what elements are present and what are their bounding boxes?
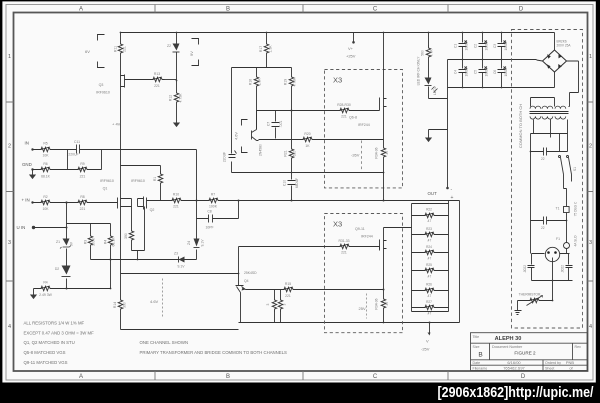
resistor R24 <box>412 245 449 260</box>
node 6V bracket <box>85 35 105 68</box>
svg-text:620: 620 <box>293 151 297 157</box>
ground earth <box>515 311 522 315</box>
resistor R18 pair <box>266 290 287 323</box>
wire lower left bottom rail <box>121 329 239 331</box>
svg-text:4: 4 <box>8 324 11 330</box>
rectifier BR1 <box>537 33 579 107</box>
svg-text:C: C <box>373 7 378 13</box>
svg-text:R11: R11 <box>114 46 118 52</box>
svg-text:Orderd by: Orderd by <box>545 361 561 365</box>
wire supply minus stub <box>447 130 449 188</box>
resistor R8 <box>76 195 90 211</box>
svg-text:3: 3 <box>8 240 11 246</box>
wire Q4 emitter rail <box>246 289 384 291</box>
svg-text:Rev: Rev <box>575 345 582 349</box>
svg-text:6V: 6V <box>85 49 90 54</box>
svg-text:Q9-11: Q9-11 <box>355 227 365 231</box>
svg-text:R25: R25 <box>426 263 432 267</box>
transistor Q9-11 <box>355 227 387 251</box>
svg-text:F1: F1 <box>556 237 560 241</box>
svg-text:200V 25A: 200V 25A <box>557 44 572 48</box>
svg-text:.47: .47 <box>427 274 432 278</box>
resistor R26 <box>412 283 449 298</box>
svg-text:2: 2 <box>8 144 11 150</box>
svg-text:6/16/00: 6/16/00 <box>507 360 521 365</box>
svg-text:U IN: U IN <box>17 225 26 230</box>
wire 68.1K leg down <box>110 260 112 289</box>
svg-text:ONE CHANNEL SHOWN: ONE CHANNEL SHOWN <box>140 340 189 345</box>
svg-text:Z3: Z3 <box>174 252 178 256</box>
wire V+ top rail <box>121 32 555 34</box>
node junctions top rail <box>120 32 430 34</box>
resistor R25 <box>412 263 449 278</box>
svg-text:R26: R26 <box>426 283 432 287</box>
svg-text:C11: C11 <box>74 140 80 144</box>
wire Q6 gate line <box>292 108 380 111</box>
svg-text:PNB: PNB <box>566 360 575 365</box>
svg-text:T1: T1 <box>556 207 560 211</box>
wire Z1 Z2 stack <box>66 228 68 289</box>
capacitor CX1 <box>531 148 568 162</box>
svg-text:560: 560 <box>421 50 425 56</box>
svg-text:220UF: 220UF <box>223 152 227 162</box>
svg-text:X3: X3 <box>333 76 342 85</box>
svg-text:R14: R14 <box>113 302 117 308</box>
svg-text:B: B <box>226 7 230 13</box>
svg-text:R7: R7 <box>211 192 215 196</box>
svg-text:C3: C3 <box>493 44 497 48</box>
svg-text:C4: C4 <box>454 70 458 74</box>
svg-text:9.1V: 9.1V <box>178 265 186 269</box>
wire Q6 drain feed <box>383 33 385 97</box>
node cap bank junctions <box>462 32 503 89</box>
svg-text:Z4: Z4 <box>187 241 191 245</box>
svg-text:IRF9610: IRF9610 <box>96 91 110 95</box>
svg-text:390: 390 <box>123 302 127 308</box>
svg-text:R23: R23 <box>426 227 432 231</box>
zener Z4 <box>187 201 205 260</box>
svg-text:C5: C5 <box>474 70 478 74</box>
capacitor C8 <box>197 201 239 230</box>
capacitor C1 <box>454 33 469 60</box>
ground <box>30 295 37 300</box>
zener Z3 <box>174 252 185 269</box>
resistor R5 <box>39 142 53 158</box>
svg-text:S1: S1 <box>573 167 577 171</box>
resistor R15 <box>282 282 296 298</box>
zone ticks bottom <box>155 371 448 380</box>
diagram X3 upper dashed box <box>325 70 403 188</box>
svg-text:R17: R17 <box>259 46 263 52</box>
wire OUT rail <box>147 200 460 202</box>
svg-text:X3: X3 <box>333 220 342 229</box>
svg-text:R22: R22 <box>426 208 432 212</box>
transformer T1 <box>530 98 570 134</box>
node junction <box>66 227 112 290</box>
svg-text:-25V: -25V <box>421 347 430 352</box>
svg-text:ALEPH 30: ALEPH 30 <box>495 336 522 342</box>
svg-text:1: 1 <box>589 54 592 60</box>
resistor R560 LED dropper <box>421 33 434 78</box>
ground <box>29 171 36 180</box>
svg-text:100K: 100K <box>209 205 218 209</box>
svg-text:4: 4 <box>589 324 592 330</box>
zone letters top <box>79 7 524 13</box>
wire primary to switch <box>531 134 568 254</box>
svg-text:B: B <box>226 374 230 380</box>
svg-text:.47: .47 <box>427 219 432 223</box>
wire output bank rails <box>412 201 449 312</box>
svg-text:B: B <box>478 352 482 359</box>
svg-text:C1: C1 <box>454 44 458 48</box>
svg-text:R12: R12 <box>169 95 173 101</box>
wire lower bias rail <box>121 273 239 275</box>
image black edges <box>0 0 600 1</box>
svg-text:IN: IN <box>25 141 29 146</box>
svg-text:R34-36: R34-36 <box>375 147 379 158</box>
svg-text:R9: R9 <box>80 162 84 166</box>
resistor R12 <box>169 91 183 123</box>
svg-text:.47: .47 <box>385 302 389 307</box>
capacitor CX2 <box>531 217 567 231</box>
diode LED1 <box>425 78 438 99</box>
svg-text:R15: R15 <box>285 282 291 286</box>
svg-text:IRF244: IRF244 <box>361 235 373 239</box>
svg-text:Size: Size <box>473 345 480 349</box>
svg-text:10000: 10000 <box>485 67 489 76</box>
svg-text:10000: 10000 <box>504 67 508 76</box>
transistor Q1 <box>100 179 131 210</box>
resistor R10 <box>170 192 184 208</box>
transistor Q4 <box>236 247 258 293</box>
svg-text:ALL RESISTORS 1/4 W 1% MF: ALL RESISTORS 1/4 W 1% MF <box>24 321 85 326</box>
svg-text:Z2: Z2 <box>167 44 171 48</box>
svg-text:221: 221 <box>341 115 347 119</box>
wire U IN to divider <box>34 203 67 228</box>
node IN label <box>25 141 34 151</box>
svg-text:[2906x1862]http://upic.me/: [2906x1862]http://upic.me/ <box>438 384 595 401</box>
wire V- rail <box>239 322 460 324</box>
resistor R4 <box>104 224 116 260</box>
wire input feed vertical <box>196 150 197 201</box>
title block <box>471 333 588 371</box>
diagram COMMON dashed box <box>512 30 583 329</box>
svg-text:.47: .47 <box>385 151 389 156</box>
svg-text:IRF9610: IRF9610 <box>131 179 145 183</box>
ground <box>425 138 432 143</box>
svg-text:68.1K: 68.1K <box>112 237 116 247</box>
svg-text:COMMON TO BOTH CH: COMMON TO BOTH CH <box>518 104 523 148</box>
svg-text:LED IRF CH ONLY: LED IRF CH ONLY <box>417 56 421 86</box>
svg-text:4.6V: 4.6V <box>235 132 239 140</box>
node terminal labels <box>451 187 454 201</box>
zone letters bottom <box>79 374 526 380</box>
svg-text:D: D <box>521 374 526 380</box>
node GND label <box>22 162 34 171</box>
svg-text:V: V <box>426 339 429 344</box>
transistor Q6-8 <box>349 97 387 128</box>
resistor R34-36 <box>375 110 390 201</box>
resistor R7 <box>207 192 221 208</box>
svg-text:10000: 10000 <box>465 67 469 76</box>
svg-text:765462.S97: 765462.S97 <box>503 366 525 371</box>
svg-text:9.1V: 9.1V <box>201 239 205 247</box>
svg-text:R3: R3 <box>84 240 88 244</box>
svg-text:10PF: 10PF <box>205 226 213 230</box>
node junction <box>291 110 293 112</box>
svg-text:1: 1 <box>8 54 11 60</box>
wire IN line <box>33 149 196 151</box>
svg-text:221: 221 <box>123 46 127 52</box>
node junctions misc <box>110 80 568 324</box>
svg-text:68.1K: 68.1K <box>41 175 51 179</box>
resistor R3 <box>84 224 96 260</box>
wire Q5 emitter rail <box>259 139 384 141</box>
svg-text:LED1: LED1 <box>433 86 437 95</box>
svg-text:-26V: -26V <box>351 153 360 158</box>
svg-text:9V: 9V <box>70 241 74 246</box>
svg-text:.47: .47 <box>427 294 432 298</box>
resistor R21 <box>284 147 297 161</box>
capacitor C5 <box>474 60 489 88</box>
svg-text:3: 3 <box>589 240 592 246</box>
capacitor C2 <box>474 33 489 60</box>
svg-text:1.0K: 1.0K <box>258 78 262 86</box>
svg-text:A: A <box>79 374 83 380</box>
svg-text:.47: .47 <box>427 311 432 315</box>
svg-text:+: + <box>451 195 454 201</box>
wire bias box mid rail <box>257 110 292 112</box>
wire main left rail <box>120 33 122 330</box>
resistor R6 <box>39 162 53 179</box>
receptacle J1 <box>532 247 570 300</box>
svg-text:.47: .47 <box>427 238 432 242</box>
resistor R37-39 <box>375 251 390 323</box>
node junction prong <box>552 280 554 282</box>
resistor R16 <box>249 68 262 130</box>
svg-text:R24: R24 <box>426 245 432 249</box>
svg-text:4A SLO: 4A SLO <box>574 235 578 247</box>
transistor Q2 <box>131 179 154 212</box>
transistor Q3 <box>96 75 150 95</box>
svg-text:3: 3 <box>266 303 270 305</box>
svg-text:V+: V+ <box>348 46 354 51</box>
svg-text:.0022: .0022 <box>523 265 527 273</box>
svg-text:Title: Title <box>473 335 480 339</box>
svg-text:390: 390 <box>124 233 128 239</box>
svg-text:Z1: Z1 <box>56 240 60 244</box>
wire input box verticals <box>68 150 102 170</box>
wire bias box <box>232 68 384 173</box>
transistor Q5 <box>252 111 263 156</box>
capacitor C9 <box>223 151 237 163</box>
resistor R20 <box>301 132 315 148</box>
svg-text:4.75K: 4.75K <box>293 77 297 87</box>
capacitor C7 <box>267 111 284 139</box>
capacitor CY2 <box>561 254 573 281</box>
svg-text:+ 4V: + 4V <box>112 122 121 127</box>
svg-text:GND: GND <box>22 162 32 167</box>
svg-text:IRF244: IRF244 <box>358 123 370 127</box>
svg-text:D2: D2 <box>55 267 59 271</box>
zone ticks left <box>6 102 14 281</box>
svg-text:R4: R4 <box>104 240 108 244</box>
svg-text:+ IN: + IN <box>22 198 30 203</box>
zone numbers left <box>8 54 11 330</box>
node 9V bracket <box>189 39 199 66</box>
svg-text:10K: 10K <box>42 207 49 211</box>
zener Z1 <box>56 239 73 249</box>
svg-text:R20: R20 <box>304 132 310 136</box>
svg-text:4.75K: 4.75K <box>179 93 183 103</box>
svg-text:R13: R13 <box>154 72 160 76</box>
node -26V measure <box>351 141 362 171</box>
svg-text:680UF: 680UF <box>295 178 299 188</box>
svg-text:220UF: 220UF <box>68 153 78 157</box>
node U IN label <box>17 225 36 230</box>
resistor R27 <box>412 300 449 315</box>
svg-text:R5: R5 <box>43 142 47 146</box>
svg-text:3: 3 <box>283 303 287 305</box>
wire Q9 drain to bank <box>384 228 412 239</box>
svg-text:Sheet: Sheet <box>545 367 554 371</box>
resistor R33 tail <box>124 199 145 260</box>
resistor R22 <box>412 208 449 223</box>
svg-text:221: 221 <box>285 294 291 298</box>
resistor R11 <box>114 42 127 56</box>
svg-text:Q1, Q2 MATCHED IN STU: Q1, Q2 MATCHED IN STU <box>24 340 75 345</box>
svg-text:9V: 9V <box>189 51 194 56</box>
resistor R9 <box>76 162 90 179</box>
svg-text:C6: C6 <box>493 70 497 74</box>
capacitor C6 <box>493 60 508 88</box>
node 4.6V bracket <box>235 120 248 153</box>
svg-text:A: A <box>79 7 83 13</box>
capacitor C11 <box>68 140 83 157</box>
svg-text:10K: 10K <box>42 154 49 158</box>
zone ticks top <box>155 5 448 13</box>
svg-text:221: 221 <box>154 84 160 88</box>
capacitor C3 <box>493 33 508 60</box>
node 4.6V measure <box>150 279 163 319</box>
zone numbers right <box>589 54 592 330</box>
diagram X3 lower dashed box <box>325 214 403 333</box>
wire Q4 collector down <box>240 293 242 323</box>
node V- arrow <box>421 322 431 352</box>
resistor R4b <box>34 280 111 297</box>
resistor R2 <box>39 195 53 211</box>
svg-text:R28-R30: R28-R30 <box>337 103 351 107</box>
svg-text:R16: R16 <box>249 79 253 85</box>
svg-text:Q4: Q4 <box>244 279 249 283</box>
svg-text:C: C <box>373 374 378 380</box>
diode D2 <box>55 266 71 277</box>
zener Z2 <box>167 33 179 91</box>
svg-text:R31-33: R31-33 <box>338 239 349 243</box>
svg-text:C7: C7 <box>267 122 271 126</box>
notes text <box>24 321 288 365</box>
watermark bar <box>0 383 600 403</box>
svg-text:25V: 25V <box>359 306 366 311</box>
svg-text:2: 2 <box>589 144 592 150</box>
svg-text:R27: R27 <box>426 300 432 304</box>
svg-text:10000: 10000 <box>504 41 508 50</box>
resistor R12b <box>153 172 163 201</box>
svg-text:2N4580: 2N4580 <box>259 144 263 156</box>
svg-text:1.5K: 1.5K <box>269 45 273 53</box>
wire cap bank mid rail <box>448 59 537 62</box>
resistor R13 <box>151 72 177 88</box>
svg-text:PRIMARY TRANSFORMER AND BRIDGE: PRIMARY TRANSFORMER AND BRIDGE COMMON TO… <box>140 350 288 355</box>
svg-text:221: 221 <box>80 207 86 211</box>
svg-text:R8: R8 <box>80 195 84 199</box>
capacitor C4 <box>454 60 469 88</box>
svg-text:R2: R2 <box>43 195 47 199</box>
svg-text:FIGURE 2: FIGURE 2 <box>514 351 536 356</box>
wire Q9 gate line <box>239 247 380 250</box>
svg-text:Document Number: Document Number <box>492 345 523 349</box>
svg-text:R19: R19 <box>284 79 288 85</box>
wire zener row <box>91 259 197 261</box>
svg-text:R6: R6 <box>43 162 47 166</box>
node junctions on OUT rail <box>196 200 385 202</box>
svg-text:Q5-8 MATCHED VGS: Q5-8 MATCHED VGS <box>24 350 66 355</box>
svg-text:10000: 10000 <box>485 41 489 50</box>
svg-text:R21: R21 <box>284 150 288 156</box>
wire out down leg <box>459 201 461 323</box>
svg-text:75 DEG C: 75 DEG C <box>574 201 578 216</box>
wire Q1 Q2 source link <box>121 166 161 173</box>
svg-text:22: 22 <box>541 226 545 230</box>
svg-text:R10: R10 <box>173 192 179 196</box>
thermistor RT1 <box>518 292 553 310</box>
svg-text:4.6V: 4.6V <box>150 299 159 304</box>
svg-text:221: 221 <box>80 175 86 179</box>
switch S1 <box>559 156 578 207</box>
svg-text:Date: Date <box>473 361 481 365</box>
node V+ arrow <box>346 33 356 59</box>
svg-text:Q6-8: Q6-8 <box>349 116 357 120</box>
node junction <box>65 201 67 203</box>
svg-text:10000: 10000 <box>465 41 469 50</box>
wire +IN line <box>33 202 118 204</box>
svg-text:C8: C8 <box>207 210 211 214</box>
svg-text:Q9-11 MATCHED VGS: Q9-11 MATCHED VGS <box>24 360 68 365</box>
fuse F1 <box>556 221 577 254</box>
svg-text:1K: 1K <box>305 144 310 148</box>
svg-text:C10: C10 <box>283 180 287 186</box>
resistor R31-33 <box>338 239 352 255</box>
svg-text:2.49 3W: 2.49 3W <box>39 293 52 297</box>
svg-text:221: 221 <box>173 205 179 209</box>
node junction Q4 emitter x383 <box>383 289 385 291</box>
wire / schematic drawing layer <box>17 30 583 365</box>
breaker T1 thermal <box>556 201 578 220</box>
svg-text:.47: .47 <box>427 256 432 260</box>
capacitor CY1 <box>523 254 535 281</box>
svg-text:100K: 100K <box>92 237 96 246</box>
svg-text:25K4SD: 25K4SD <box>244 271 257 275</box>
zone ticks right <box>588 102 594 281</box>
svg-text:+25V: +25V <box>346 54 356 59</box>
wire receptacle bottom <box>532 280 573 282</box>
svg-text:OUT: OUT <box>428 191 438 196</box>
wire LED ground loop <box>429 60 448 138</box>
svg-text:221: 221 <box>341 251 347 255</box>
svg-text:22: 22 <box>541 157 545 161</box>
node +IN label <box>22 198 34 204</box>
ground <box>173 123 180 128</box>
